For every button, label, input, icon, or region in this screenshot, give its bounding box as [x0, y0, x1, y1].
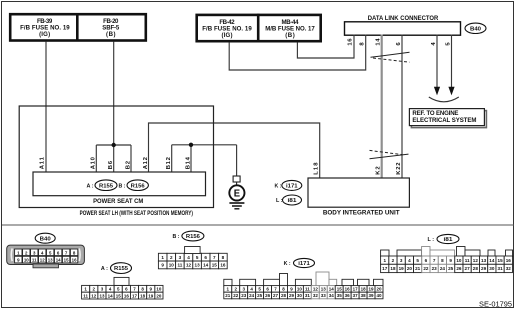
- svg-text:13: 13: [195, 263, 201, 268]
- svg-text:14: 14: [56, 258, 61, 263]
- svg-text:i81: i81: [288, 198, 297, 204]
- svg-text:10: 10: [24, 258, 29, 263]
- svg-text:2: 2: [392, 258, 395, 263]
- svg-text:16: 16: [220, 263, 226, 268]
- svg-text:35: 35: [337, 293, 343, 298]
- svg-text:9: 9: [449, 258, 452, 263]
- svg-text:22: 22: [233, 293, 239, 298]
- svg-text:A :: A :: [87, 183, 94, 189]
- svg-text:13: 13: [99, 293, 105, 298]
- svg-text:K :: K :: [284, 261, 291, 267]
- svg-text:24: 24: [440, 266, 446, 271]
- svg-text:26: 26: [265, 293, 271, 298]
- svg-text:12: 12: [91, 293, 97, 298]
- svg-text:L18: L18: [314, 162, 320, 175]
- svg-text:(IG): (IG): [39, 31, 50, 38]
- svg-text:18: 18: [361, 287, 367, 292]
- svg-text:12: 12: [473, 258, 479, 263]
- svg-text:6: 6: [204, 255, 207, 260]
- svg-text:L :: L :: [276, 198, 283, 204]
- svg-text:27: 27: [273, 293, 279, 298]
- svg-text:3: 3: [400, 258, 403, 263]
- svg-text:11: 11: [305, 287, 310, 292]
- svg-text:R155: R155: [114, 266, 128, 272]
- svg-text:i81: i81: [444, 237, 453, 243]
- svg-text:26: 26: [456, 266, 462, 271]
- svg-text:DATA LINK CONNECTOR: DATA LINK CONNECTOR: [368, 15, 439, 22]
- svg-text:(IG): (IG): [222, 32, 233, 39]
- svg-text:B :: B :: [173, 234, 180, 240]
- svg-text:14: 14: [203, 263, 209, 268]
- svg-text:15: 15: [337, 287, 343, 292]
- svg-text:22: 22: [423, 266, 429, 271]
- svg-text:K22: K22: [396, 162, 402, 175]
- svg-text:B12: B12: [166, 156, 172, 169]
- svg-text:13: 13: [48, 258, 53, 263]
- svg-text:15: 15: [64, 258, 69, 263]
- svg-text:20: 20: [377, 287, 383, 292]
- svg-text:15: 15: [212, 263, 218, 268]
- svg-text:30: 30: [297, 293, 303, 298]
- svg-text:31: 31: [498, 266, 504, 271]
- svg-text:A12: A12: [143, 156, 149, 169]
- svg-text:7: 7: [433, 258, 436, 263]
- svg-text:25: 25: [448, 266, 454, 271]
- svg-text:19: 19: [369, 287, 375, 292]
- svg-text:16: 16: [124, 293, 130, 298]
- svg-text:10: 10: [156, 287, 162, 292]
- svg-text:B6: B6: [108, 160, 114, 169]
- svg-text:23: 23: [241, 293, 247, 298]
- svg-text:R156: R156: [131, 183, 145, 189]
- svg-text:19: 19: [148, 293, 154, 298]
- svg-text:40: 40: [377, 293, 383, 298]
- svg-text:4: 4: [187, 255, 190, 260]
- svg-text:36: 36: [345, 293, 351, 298]
- svg-text:16: 16: [506, 258, 512, 263]
- svg-text:5: 5: [416, 258, 419, 263]
- svg-text:L :: L :: [428, 237, 435, 243]
- svg-text:17: 17: [382, 266, 388, 271]
- svg-text:16: 16: [345, 287, 351, 292]
- svg-text:12: 12: [313, 287, 319, 292]
- svg-text:POWER SEAT LH (WITH SEAT POSIT: POWER SEAT LH (WITH SEAT POSITION MEMORY…: [80, 210, 193, 217]
- svg-text:K :: K :: [275, 183, 282, 189]
- svg-text:12: 12: [40, 258, 45, 263]
- svg-text:1: 1: [161, 255, 164, 260]
- svg-text:32: 32: [313, 293, 319, 298]
- svg-text:28: 28: [281, 293, 287, 298]
- svg-text:31: 31: [305, 293, 311, 298]
- svg-text:K2: K2: [376, 166, 382, 175]
- svg-text:POWER SEAT CM: POWER SEAT CM: [93, 198, 143, 205]
- svg-text:15: 15: [116, 293, 122, 298]
- svg-text:5: 5: [196, 255, 199, 260]
- svg-text:8: 8: [441, 258, 444, 263]
- svg-text:i171: i171: [298, 261, 310, 267]
- svg-text:21: 21: [415, 266, 421, 271]
- svg-text:10: 10: [456, 258, 462, 263]
- svg-text:7: 7: [213, 255, 216, 260]
- svg-text:B :: B :: [119, 183, 126, 189]
- svg-text:B40: B40: [40, 236, 51, 242]
- svg-text:B40: B40: [470, 26, 481, 32]
- svg-text:33: 33: [321, 293, 327, 298]
- svg-text:i171: i171: [286, 183, 298, 189]
- svg-text:A :: A :: [101, 266, 108, 272]
- svg-text:ELECTRICAL SYSTEM: ELECTRICAL SYSTEM: [412, 117, 476, 124]
- svg-text:16: 16: [348, 38, 354, 46]
- svg-text:13: 13: [321, 287, 327, 292]
- svg-text:23: 23: [432, 266, 438, 271]
- svg-text:A10: A10: [91, 156, 97, 169]
- svg-text:11: 11: [32, 258, 37, 263]
- svg-text:14: 14: [329, 287, 335, 292]
- svg-text:30: 30: [489, 266, 495, 271]
- svg-text:14: 14: [108, 293, 114, 298]
- svg-text:20: 20: [156, 293, 162, 298]
- svg-text:BODY INTEGRATED UNIT: BODY INTEGRATED UNIT: [323, 210, 400, 217]
- svg-text:REF. TO ENGINE: REF. TO ENGINE: [412, 110, 458, 117]
- svg-text:18: 18: [390, 266, 396, 271]
- svg-text:(B): (B): [106, 31, 116, 38]
- svg-text:13: 13: [481, 258, 487, 263]
- svg-text:6: 6: [425, 258, 428, 263]
- svg-text:32: 32: [506, 266, 512, 271]
- svg-text:R156: R156: [186, 234, 200, 240]
- svg-text:18: 18: [140, 293, 146, 298]
- svg-text:38: 38: [361, 293, 367, 298]
- svg-text:11: 11: [83, 293, 88, 298]
- svg-text:4: 4: [408, 258, 411, 263]
- svg-text:19: 19: [399, 266, 405, 271]
- svg-text:20: 20: [407, 266, 413, 271]
- svg-text:1: 1: [383, 258, 386, 263]
- svg-text:17: 17: [353, 287, 359, 292]
- svg-text:34: 34: [329, 293, 335, 298]
- svg-text:37: 37: [353, 293, 359, 298]
- svg-text:39: 39: [369, 293, 375, 298]
- svg-text:10: 10: [297, 287, 303, 292]
- svg-text:12: 12: [186, 263, 192, 268]
- svg-text:29: 29: [481, 266, 487, 271]
- svg-text:9: 9: [161, 263, 164, 268]
- svg-text:SE-01795: SE-01795: [479, 299, 512, 308]
- svg-text:E: E: [234, 188, 240, 200]
- svg-text:B14: B14: [185, 156, 191, 169]
- svg-text:28: 28: [473, 266, 479, 271]
- svg-text:(B): (B): [285, 32, 295, 39]
- svg-text:29: 29: [289, 293, 295, 298]
- svg-text:2: 2: [170, 255, 173, 260]
- svg-text:21: 21: [225, 293, 231, 298]
- svg-text:R155: R155: [99, 183, 113, 189]
- svg-text:15: 15: [498, 258, 504, 263]
- svg-text:10: 10: [169, 263, 175, 268]
- svg-text:24: 24: [249, 293, 255, 298]
- svg-text:27: 27: [465, 266, 471, 271]
- svg-text:11: 11: [177, 263, 182, 268]
- svg-text:25: 25: [257, 293, 263, 298]
- svg-text:A11: A11: [39, 156, 45, 169]
- svg-text:B2: B2: [125, 160, 131, 169]
- svg-text:14: 14: [489, 258, 495, 263]
- svg-text:8: 8: [222, 255, 225, 260]
- svg-text:16: 16: [72, 258, 77, 263]
- svg-text:11: 11: [465, 258, 470, 263]
- svg-text:3: 3: [179, 255, 182, 260]
- svg-text:17: 17: [132, 293, 138, 298]
